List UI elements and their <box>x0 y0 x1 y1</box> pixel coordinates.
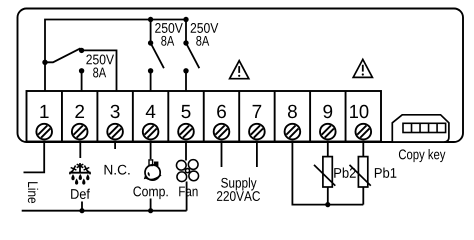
wire: SW1 upper contact to terminal 3 <box>82 50 117 91</box>
terminal 9 <box>320 105 336 140</box>
label 8A (SW3) <box>196 36 209 46</box>
wire: fan to bottom common <box>186 182 188 211</box>
controller body outline <box>18 9 464 143</box>
wire: drop to relay 3 contact <box>185 20 187 44</box>
wire: terminal 5 to fan icon <box>185 142 187 161</box>
label 8A (SW1) <box>93 68 106 78</box>
compressor icon <box>144 160 161 180</box>
terminal 6 <box>214 105 230 140</box>
terminal 8 <box>285 105 301 140</box>
label 250V (SW1) <box>86 55 114 65</box>
node: wire junction above terminal 5 <box>183 17 188 22</box>
wire: terminal 3 stub <box>114 142 116 150</box>
copy key connector <box>392 115 449 142</box>
terminal 4 <box>143 105 159 139</box>
terminal 3 <box>107 105 123 140</box>
wire: Pb1 to probe common <box>362 187 364 205</box>
relay contact SW1 blade (closed) <box>45 48 81 62</box>
bottom common (neutral) wire <box>22 210 187 212</box>
relay SW3 blade (open) <box>186 43 199 68</box>
wire: terminal 2 to defrost icon <box>79 142 81 159</box>
label Copy key <box>399 149 446 162</box>
warning triangle 2 <box>353 59 372 77</box>
wire: terminal 10 to Pb1 <box>362 142 364 158</box>
label 250V (SW2) <box>155 23 183 33</box>
relay SW3 lower contact node <box>183 68 188 73</box>
node: defrost junction on bottom common <box>79 208 84 213</box>
wire: SW2 lower contact to terminal 4 <box>150 71 152 91</box>
wire: terminal 6 supply lead <box>221 142 223 168</box>
wire: terminal 1 Line lead <box>24 142 45 173</box>
label 250V (SW3) <box>191 23 219 33</box>
thermistor Pb2 <box>314 157 335 187</box>
node: compressor junction on bottom common <box>148 208 153 213</box>
relay SW2 top contact node <box>148 40 153 45</box>
label Fan <box>179 187 197 197</box>
wire: drop to relay 2 contact <box>150 20 152 44</box>
label 220VAC <box>217 191 260 201</box>
terminal 10 <box>350 105 371 140</box>
wire: compressor to bottom common <box>150 199 152 211</box>
wire: terminal 7 supply lead <box>256 142 258 168</box>
wire: terminal 9 to Pb2 <box>327 142 329 158</box>
node: probe junction <box>325 202 330 207</box>
relay SW2 lower contact node <box>148 68 153 73</box>
terminal 7 <box>249 105 265 139</box>
terminal 5 <box>178 105 194 139</box>
defrost (snowflake + drops) icon <box>69 163 91 185</box>
wire: terminal 8 to probe common <box>292 142 363 205</box>
label Pb1 <box>375 168 396 178</box>
label Def <box>71 189 90 199</box>
terminal 1 <box>36 105 52 139</box>
wire: defrost to bottom common <box>81 202 83 211</box>
label 8A (SW2) <box>161 36 174 46</box>
wire: Pb2 to probe common <box>327 187 329 205</box>
relay SW1 lower contact node <box>79 68 84 73</box>
label Line (rotated) <box>28 182 38 203</box>
terminal 2 <box>72 105 88 140</box>
wire: SW3 lower contact to terminal 5 <box>185 71 187 91</box>
label Supply <box>221 177 256 190</box>
relay SW2 blade (open) <box>151 43 164 68</box>
relay SW1 upper contact node <box>79 48 84 53</box>
label N.C. <box>105 165 130 175</box>
thermistor Pb1 <box>350 157 371 187</box>
wire: terminal 4 to compressor icon <box>150 142 152 160</box>
label Pb2 <box>334 168 355 178</box>
wire: SW1 lower contact to terminal 2 <box>81 71 83 91</box>
terminal strip outline <box>27 91 382 142</box>
top supply wire <box>45 20 186 92</box>
warning triangle 1 <box>230 61 249 79</box>
fan icon <box>176 160 198 182</box>
node: wire junction above terminal 4 <box>148 17 153 22</box>
relay SW3 top contact node <box>183 40 188 45</box>
label Comp. <box>133 186 167 199</box>
relay contact SW1 common node on terminal-1 riser <box>42 60 47 65</box>
